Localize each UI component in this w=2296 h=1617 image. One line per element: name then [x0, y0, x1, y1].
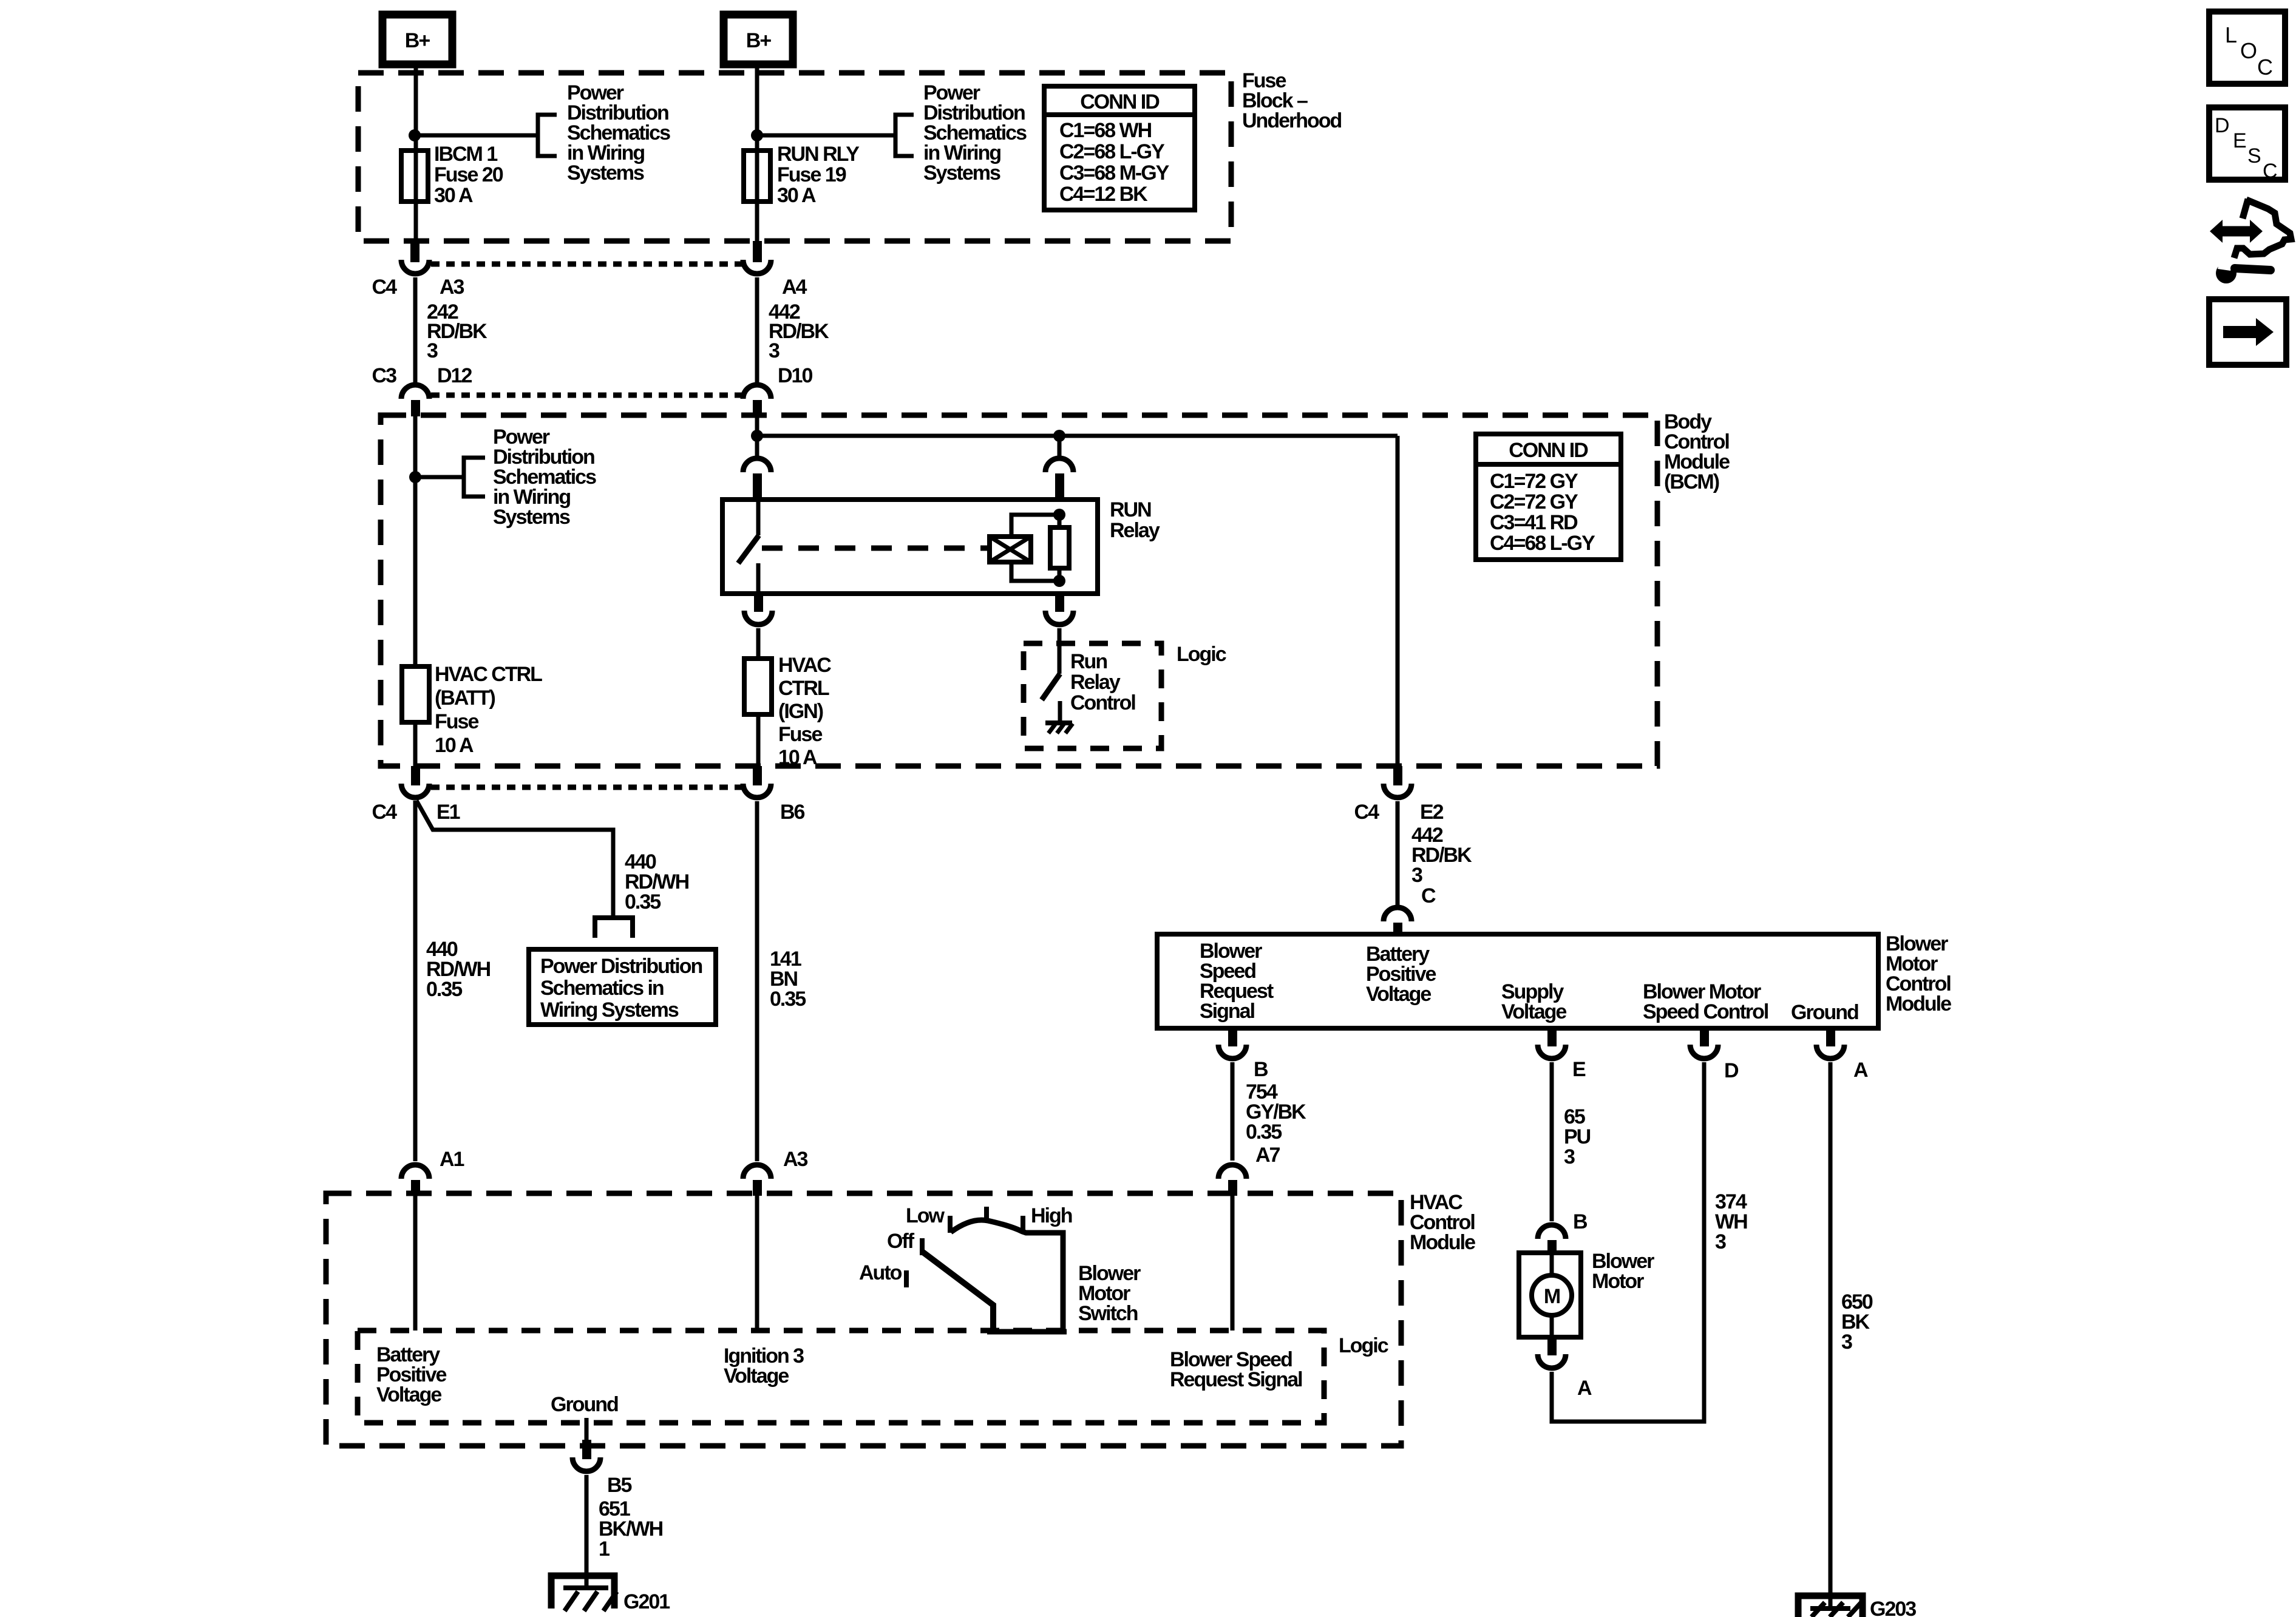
- svg-text:3: 3: [1564, 1145, 1575, 1168]
- label Run Relay Control: [1070, 650, 1135, 714]
- label 242 RD/BK 3: [427, 300, 487, 362]
- svg-text:Module: Module: [1410, 1231, 1475, 1254]
- label RUN Relay: [1110, 498, 1160, 542]
- svg-text:Voltage: Voltage: [724, 1364, 789, 1388]
- svg-text:D: D: [1724, 1059, 1739, 1082]
- run relay coil branch wire: [1011, 515, 1059, 581]
- svg-text:B6: B6: [780, 801, 805, 824]
- label Logic (BCM): [1177, 643, 1226, 666]
- wire B+ to IBCM 1 fuse and down to fuse block bottom: [414, 64, 418, 243]
- label High: [1031, 1204, 1072, 1227]
- connector pin C (into blower motor control module): [1384, 907, 1411, 934]
- blower motor M symbol: [1532, 1253, 1572, 1337]
- label Auto: [859, 1261, 902, 1284]
- connector C4 pin E1: [401, 766, 429, 798]
- connector pin B5 (ground out of HVAC): [572, 1440, 600, 1471]
- run relay box: [722, 500, 1098, 594]
- svg-text:Systems: Systems: [493, 506, 570, 529]
- svg-text:E1: E1: [436, 801, 460, 824]
- connector pin B (module): [1218, 1028, 1246, 1059]
- fuse HVAC CTRL (BATT) 10 A: [402, 666, 429, 722]
- svg-text:HVAC: HVAC: [778, 654, 831, 677]
- label D12: [437, 364, 472, 387]
- ground symbol (run relay control): [1045, 723, 1073, 733]
- fuse RUN RLY Fuse 19 30 A: [744, 151, 770, 202]
- svg-text:Request Signal: Request Signal: [1170, 1368, 1302, 1391]
- label A3: [440, 276, 464, 299]
- label IBCM 1 Fuse 20 30 A: [434, 143, 503, 207]
- connector B6: [743, 766, 771, 798]
- connector C3 pin D12 (into BCM): [401, 385, 429, 416]
- junction node BCM battery feed: [409, 471, 421, 483]
- svg-text:0.35: 0.35: [1246, 1120, 1282, 1144]
- wire tap to power distribution schematics (BCM): [415, 458, 485, 497]
- svg-text:C1=72 GY: C1=72 GY: [1490, 470, 1578, 493]
- connector C4 pin A3 (in-line, left): [401, 241, 429, 274]
- label A7: [1255, 1144, 1280, 1167]
- connector C4 pin E2: [1384, 766, 1411, 798]
- svg-text:A7: A7: [1255, 1144, 1280, 1167]
- icon wrench: [2216, 261, 2271, 283]
- svg-text:Module: Module: [1886, 992, 1951, 1015]
- label 650 BK 3: [1841, 1290, 1873, 1354]
- label 141 BN 0.35: [770, 947, 806, 1011]
- wire BCM battery feed down to HVAC CTRL BATT fuse: [413, 416, 418, 666]
- svg-text:C4=12 BK: C4=12 BK: [1059, 183, 1148, 206]
- label ground (logic): [551, 1393, 618, 1416]
- wire relay coil pin (top): [1058, 436, 1062, 456]
- svg-text:Motor: Motor: [1592, 1270, 1644, 1293]
- icon DESC box: [2209, 107, 2285, 183]
- svg-text:Relay: Relay: [1070, 671, 1121, 694]
- label ground (pin A): [1791, 1001, 1858, 1024]
- junction node ignition bus left: [751, 430, 763, 442]
- wire ground out of logic: [585, 1418, 589, 1440]
- blower motor box: [1519, 1253, 1581, 1337]
- connector pin A ground (module): [1816, 1028, 1844, 1059]
- wire blower motor return to speed control (374 WH 3): [1552, 1062, 1704, 1422]
- run relay actuation dashed line: [762, 546, 990, 551]
- connector pin E (module): [1538, 1028, 1566, 1059]
- blower motor switch contact Low: [948, 1216, 953, 1233]
- svg-text:IBCM 1: IBCM 1: [434, 143, 497, 166]
- svg-text:Fuse 19: Fuse 19: [777, 163, 846, 186]
- blower motor switch contact Off: [920, 1238, 925, 1255]
- svg-text:C4: C4: [372, 801, 398, 824]
- svg-text:L: L: [2225, 22, 2237, 47]
- label C3 (left): [372, 364, 397, 387]
- label B5: [607, 1474, 632, 1497]
- svg-text:Signal: Signal: [1200, 1000, 1255, 1023]
- svg-text:C4: C4: [1354, 801, 1380, 824]
- CONN ID table (fuse block): [1044, 86, 1195, 210]
- wire 651 BK/WH 1 to G201: [585, 1475, 589, 1587]
- svg-text:3: 3: [1841, 1331, 1852, 1354]
- run relay coil resistor: [1050, 515, 1069, 581]
- svg-text:A: A: [1577, 1377, 1592, 1400]
- label E2: [1420, 801, 1444, 824]
- svg-text:E: E: [2233, 129, 2247, 152]
- label battery positive voltage (logic): [376, 1343, 446, 1406]
- svg-text:0.35: 0.35: [426, 978, 462, 1001]
- label 442 RD/BK 3 (upper): [769, 300, 829, 362]
- svg-text:A3: A3: [440, 276, 464, 299]
- icon vehicle double arrow: [2210, 220, 2263, 243]
- blower motor switch rotor arc: [951, 1220, 1063, 1331]
- label A (module ground pin): [1853, 1059, 1868, 1082]
- svg-text:Voltage: Voltage: [1501, 1000, 1566, 1023]
- svg-text:Wiring Systems: Wiring Systems: [540, 998, 679, 1022]
- label D10: [778, 364, 812, 387]
- svg-text:Control: Control: [1070, 691, 1135, 714]
- label battery positive voltage (pin C): [1366, 943, 1436, 1006]
- svg-text:3: 3: [1715, 1230, 1726, 1253]
- label HVAC CTRL (BATT) Fuse 10 A: [435, 663, 542, 757]
- label Logic (HVAC): [1339, 1334, 1388, 1357]
- junction node ignition bus at relay: [1053, 430, 1065, 442]
- label blower motor switch: [1078, 1262, 1141, 1325]
- label B (module pin): [1254, 1058, 1268, 1081]
- blower motor switch contact High: [1021, 1216, 1025, 1230]
- svg-text:3: 3: [1411, 864, 1422, 887]
- label A (blower motor pin): [1577, 1377, 1592, 1400]
- svg-text:M: M: [1544, 1285, 1560, 1308]
- label fuse block - underhood: [1242, 69, 1342, 132]
- svg-text:Voltage: Voltage: [376, 1383, 441, 1406]
- svg-text:0.35: 0.35: [770, 988, 806, 1011]
- svg-text:C: C: [2263, 160, 2278, 183]
- label Low: [906, 1204, 945, 1227]
- svg-text:Off: Off: [887, 1230, 915, 1253]
- blower motor control module box: [1157, 934, 1878, 1028]
- svg-text:C: C: [1421, 884, 1436, 907]
- svg-text:B: B: [1573, 1210, 1588, 1233]
- wire BATT fuse to BCM bottom: [413, 722, 418, 766]
- svg-text:Ground: Ground: [551, 1393, 618, 1416]
- connector relay switch pin (bottom): [744, 594, 772, 625]
- svg-text:10 A: 10 A: [778, 746, 817, 769]
- svg-text:Fuse 20: Fuse 20: [434, 163, 503, 186]
- fuse IBCM 1 Fuse 20 30 A: [401, 151, 428, 202]
- svg-text:C4: C4: [372, 276, 398, 299]
- label blower motor control module: [1886, 932, 1951, 1015]
- label G203: [1870, 1598, 1916, 1617]
- HVAC control module dashed box: [326, 1193, 1401, 1446]
- run relay control logic dashed box: [1024, 643, 1161, 748]
- wire 754 GY/BK 0.35: [1231, 1062, 1235, 1161]
- connector pin A7 (into HVAC control module): [1218, 1165, 1246, 1196]
- svg-text:CTRL: CTRL: [778, 677, 829, 700]
- connector C4 pin A4 (in-line, right): [743, 241, 771, 274]
- svg-text:A: A: [1853, 1059, 1868, 1082]
- label blower speed request signal (logic): [1170, 1348, 1302, 1391]
- blower motor switch contact Auto: [904, 1270, 909, 1287]
- wire IGN fuse to BCM bottom: [756, 714, 761, 766]
- connector relay coil pin (top): [1045, 458, 1073, 500]
- svg-text:A3: A3: [783, 1148, 808, 1171]
- svg-text:Schematics in: Schematics in: [540, 977, 664, 1000]
- svg-text:Fuse: Fuse: [435, 710, 478, 733]
- svg-text:Systems: Systems: [923, 161, 1000, 185]
- label supply voltage (pin E): [1501, 980, 1566, 1023]
- power terminal B+ (left feed): [382, 15, 452, 64]
- connector blower motor pin B: [1538, 1225, 1566, 1253]
- svg-text:(IGN): (IGN): [778, 700, 823, 723]
- label 651 BK/WH 1: [599, 1497, 663, 1561]
- label body control module (BCM): [1664, 410, 1730, 493]
- power distribution schematics reference box: [529, 949, 716, 1025]
- wire 242 RD/BK 3: [413, 277, 418, 384]
- junction node coil top: [1053, 509, 1065, 521]
- wire 442 RD/BK 3 (upper): [755, 277, 759, 384]
- HVAC logic dashed box: [358, 1331, 1324, 1423]
- label D (module pin): [1724, 1059, 1739, 1082]
- in-line connector dividing line (C4 level): [431, 262, 742, 267]
- in-line connector dividing line (C3 level): [431, 393, 742, 398]
- run relay switch contact: [738, 500, 759, 594]
- svg-text:RUN RLY: RUN RLY: [777, 143, 860, 166]
- label blower speed request signal (pin B): [1200, 940, 1274, 1023]
- svg-text:30 A: 30 A: [434, 184, 473, 207]
- svg-text:C2=68 L-GY: C2=68 L-GY: [1059, 140, 1165, 163]
- label E (module pin): [1572, 1058, 1586, 1081]
- svg-text:Ground: Ground: [1791, 1001, 1858, 1024]
- blower motor switch wiper: [922, 1252, 993, 1331]
- label B6: [780, 801, 805, 824]
- label ignition 3 voltage (logic): [724, 1344, 804, 1388]
- label HVAC CTRL (IGN) Fuse 10 A: [778, 654, 831, 769]
- label 440 RD/WH 0.35 (branch): [625, 850, 689, 914]
- label blower motor speed control (pin D): [1643, 980, 1768, 1023]
- svg-text:C3=68 M-GY: C3=68 M-GY: [1059, 161, 1170, 185]
- svg-text:3: 3: [769, 339, 779, 362]
- connector pin A3 (into HVAC control module): [743, 1165, 771, 1196]
- svg-text:(BCM): (BCM): [1664, 470, 1719, 493]
- body control module (BCM) dashed box: [381, 415, 1657, 766]
- svg-text:C4=68 L-GY: C4=68 L-GY: [1490, 532, 1595, 555]
- svg-text:1: 1: [599, 1537, 610, 1561]
- label power distribution schematics in wiring systems (right): [923, 81, 1027, 185]
- wire tap to power distribution schematics (left): [415, 115, 557, 156]
- svg-text:A4: A4: [782, 276, 807, 299]
- svg-text:D: D: [2215, 114, 2230, 137]
- svg-text:Logic: Logic: [1177, 643, 1226, 666]
- svg-text:C1=68 WH: C1=68 WH: [1059, 119, 1152, 142]
- wire B+ to RUN RLY fuse and down to fuse block bottom: [755, 64, 759, 243]
- svg-text:C: C: [2257, 55, 2273, 80]
- fuse HVAC CTRL (IGN) 10 A: [744, 659, 772, 714]
- junction node coil bottom: [1053, 575, 1065, 587]
- power terminal B+ (right feed): [724, 15, 793, 64]
- wire 141 BN 0.35: [755, 801, 759, 1161]
- run relay coil: [990, 537, 1031, 562]
- svg-text:G201: G201: [623, 1590, 670, 1613]
- label HVAC control module: [1410, 1191, 1475, 1254]
- svg-text:Run: Run: [1070, 650, 1107, 673]
- wire blower speed request signal (A7 to logic): [1231, 1196, 1235, 1331]
- blower motor switch contact top: [984, 1207, 989, 1222]
- connector blower motor pin A: [1538, 1337, 1566, 1368]
- svg-text:Auto: Auto: [859, 1261, 902, 1284]
- wire BCM ignition bus (horizontal): [757, 434, 1398, 438]
- label A4: [782, 276, 807, 299]
- svg-text:HVAC CTRL: HVAC CTRL: [435, 663, 542, 686]
- label 65 PU 3: [1564, 1105, 1591, 1168]
- label blower motor: [1592, 1250, 1654, 1293]
- label RUN RLY Fuse 19 30 A: [777, 143, 860, 207]
- wire tap to power distribution schematics (right): [757, 115, 914, 156]
- svg-text:B: B: [1254, 1058, 1268, 1081]
- label C: [1421, 884, 1436, 907]
- blower motor switch common segment: [987, 1329, 1067, 1335]
- svg-text:Systems: Systems: [567, 161, 644, 185]
- label 374 WH 3: [1715, 1190, 1747, 1253]
- svg-text:CONN ID: CONN ID: [1509, 439, 1588, 462]
- icon next arrow box: [2209, 299, 2286, 365]
- ground G203 symbol: [1798, 1596, 1863, 1617]
- label C4 (E2): [1354, 801, 1380, 824]
- run relay control switch: [1042, 628, 1060, 723]
- label power distribution schematics in wiring systems (left): [567, 81, 670, 185]
- connector pin A1 (into HVAC control module): [401, 1165, 429, 1196]
- wire 65 PU 3: [1550, 1062, 1554, 1221]
- svg-text:0.35: 0.35: [625, 890, 661, 914]
- label 754 GY/BK 0.35: [1246, 1080, 1306, 1144]
- svg-text:E2: E2: [1420, 801, 1444, 824]
- junction node on IBCM 1 feed: [409, 129, 421, 141]
- ground G201 symbol: [551, 1576, 617, 1611]
- svg-text:RUN: RUN: [1110, 498, 1151, 521]
- svg-text:C2=72 GY: C2=72 GY: [1490, 490, 1578, 514]
- svg-text:D10: D10: [778, 364, 812, 387]
- label E1: [436, 801, 460, 824]
- wire 440 RD/WH 0.35 to HVAC control module: [413, 801, 418, 1161]
- connector relay coil pin (bottom): [1045, 594, 1073, 625]
- svg-text:CONN ID: CONN ID: [1080, 90, 1160, 114]
- svg-text:S: S: [2247, 144, 2261, 168]
- junction node on RUN RLY feed: [751, 129, 763, 141]
- wire relay to HVAC CTRL IGN fuse: [756, 628, 761, 659]
- svg-text:3: 3: [427, 339, 438, 362]
- icon LOC box: [2209, 12, 2285, 84]
- svg-text:Underhood: Underhood: [1242, 109, 1342, 132]
- svg-text:B+: B+: [746, 29, 772, 52]
- svg-text:Power Distribution: Power Distribution: [540, 955, 702, 978]
- wire into run relay switch pin: [755, 416, 759, 456]
- svg-text:A1: A1: [440, 1148, 464, 1171]
- svg-text:G203: G203: [1870, 1598, 1916, 1617]
- label power distribution schematics in wiring systems (BCM): [493, 425, 596, 529]
- wire 650 BK 3 to G203: [1829, 1062, 1833, 1609]
- label A1: [440, 1148, 464, 1171]
- svg-text:D12: D12: [437, 364, 472, 387]
- label A3 (HVAC): [783, 1148, 808, 1171]
- in-line connector dividing line (C4 E1 / B6 level): [431, 785, 742, 790]
- svg-text:(BATT): (BATT): [435, 686, 495, 710]
- svg-text:Switch: Switch: [1078, 1302, 1138, 1325]
- svg-text:B+: B+: [405, 29, 430, 52]
- svg-text:C3: C3: [372, 364, 397, 387]
- svg-text:C3=41 RD: C3=41 RD: [1490, 511, 1578, 534]
- label B (blower motor pin): [1573, 1210, 1588, 1233]
- label Off: [887, 1230, 915, 1253]
- connector relay switch pin (top): [743, 458, 771, 500]
- label C4 (E1): [372, 801, 398, 824]
- svg-text:Voltage: Voltage: [1366, 983, 1431, 1006]
- label C4 (left): [372, 276, 398, 299]
- svg-text:30 A: 30 A: [777, 184, 816, 207]
- label G201: [623, 1590, 670, 1613]
- label 442 RD/BK 3 (lower): [1411, 824, 1472, 887]
- svg-text:Speed Control: Speed Control: [1643, 1000, 1768, 1023]
- wire 440 RD/WH 0.35 branch to power distribution: [416, 801, 633, 938]
- svg-text:10 A: 10 A: [435, 734, 474, 757]
- svg-text:Fuse: Fuse: [778, 723, 822, 746]
- svg-text:Low: Low: [906, 1204, 945, 1227]
- wire battery positive voltage (A1 to logic): [413, 1196, 418, 1331]
- icon vehicle outline: [2234, 199, 2291, 258]
- label 440 RD/WH 0.35: [426, 938, 491, 1001]
- CONN ID table (BCM): [1476, 434, 1621, 560]
- fuse block - underhood module dashed box: [358, 73, 1231, 241]
- svg-text:Relay: Relay: [1110, 519, 1160, 542]
- wire 442 RD/BK 3 (lower): [1396, 801, 1400, 905]
- connector C3 pin D10 (into BCM): [743, 385, 771, 416]
- svg-text:Logic: Logic: [1339, 1334, 1388, 1357]
- svg-text:B5: B5: [607, 1474, 632, 1497]
- svg-text:E: E: [1572, 1058, 1586, 1081]
- wire BCM output to C4 E2: [1396, 436, 1400, 766]
- svg-text:High: High: [1031, 1204, 1072, 1227]
- connector pin D (module): [1690, 1028, 1718, 1059]
- wire ignition 3 voltage (A3 to logic): [755, 1196, 759, 1331]
- svg-text:O: O: [2240, 38, 2257, 63]
